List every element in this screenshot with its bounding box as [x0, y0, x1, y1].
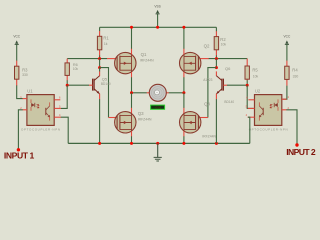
power symbol VCC left — [13, 34, 20, 60]
wire Q6 base to R5 junction — [227, 84, 247, 86]
U2 pin 1 — [282, 98, 287, 100]
svg-text:U1: U1 — [27, 88, 33, 93]
phototransistor inside U1 — [45, 108, 47, 115]
svg-text:INPUT 2: INPUT 2 — [286, 147, 316, 157]
svg-text:IRFZ44N: IRFZ44N — [138, 118, 152, 122]
svg-text:A1023: A1023 — [203, 78, 212, 82]
phototransistor inside U2 — [262, 108, 264, 115]
resistor R3 — [15, 61, 29, 86]
pin stub Q1 drain — [131, 49, 133, 55]
svg-text:INPUT 1: INPUT 1 — [4, 151, 35, 161]
wire Q5 base to R6 junction — [67, 84, 89, 86]
node dot rail Q1 — [130, 26, 133, 29]
wire R1 to gate node — [99, 55, 101, 58]
transistor Q4 — [180, 101, 217, 138]
wire to Q4 gate feed — [208, 68, 217, 118]
svg-text:IRFZ44N: IRFZ44N — [140, 58, 154, 62]
wire R2 to right gate node — [215, 55, 217, 58]
wire motor node to Q3 drain — [131, 93, 133, 108]
U2 pin 4 — [248, 116, 255, 118]
svg-text:R4: R4 — [292, 68, 298, 73]
node dot rail VSS — [156, 26, 159, 29]
wire Q6 emitter to ground rail — [215, 99, 217, 143]
wire gate node down right — [215, 59, 217, 68]
svg-text:Q3: Q3 — [138, 111, 144, 116]
wire R3 to U1 pin1 — [17, 85, 23, 98]
transistor Q1 — [100, 52, 155, 74]
wire U2 pin2 to input2 — [286, 110, 297, 144]
svg-text:BD140: BD140 — [224, 100, 234, 104]
wire U1 pin2 to input1 — [18, 110, 22, 149]
transistor Q5 — [89, 71, 111, 99]
wire gate node line left — [67, 58, 107, 60]
svg-text:OPTOCOUPLER-NPN: OPTOCOUPLER-NPN — [249, 128, 288, 132]
svg-text:VSS: VSS — [154, 4, 160, 8]
node dot R5 base junction — [246, 84, 249, 87]
pin stub Q2 source — [183, 72, 185, 78]
U2 pin 5 — [248, 107, 255, 109]
ground rail — [68, 142, 250, 144]
wire Q3 source to ground rail — [131, 136, 133, 143]
svg-text:R5: R5 — [252, 68, 258, 73]
U1 pin 4 — [54, 116, 61, 118]
node dot Q6 collector junction — [215, 66, 218, 69]
node dot motor right — [182, 91, 185, 94]
pin stub Q2 gate — [200, 58, 209, 60]
svg-text:BD140: BD140 — [101, 82, 111, 86]
U1 pin 2 — [23, 109, 27, 111]
svg-text:Q6: Q6 — [225, 66, 231, 71]
wire Q5 emitter to ground rail — [99, 99, 101, 143]
svg-text:Q5: Q5 — [102, 76, 108, 81]
wire rail to R2 — [215, 27, 217, 31]
svg-text:10k: 10k — [253, 75, 259, 79]
U1 pin 5 — [54, 107, 61, 109]
pin stub Q1 source — [131, 72, 133, 78]
U2 pin 2 — [282, 109, 287, 111]
resistor R2 — [214, 31, 226, 56]
node dot rail Q4 — [182, 142, 185, 145]
U2 pin 6 — [248, 99, 254, 101]
pin stub Q4 drain — [183, 108, 185, 114]
ground symbol — [154, 143, 162, 161]
wire R5 to junction — [246, 80, 248, 85]
wire U1 pin4 to ground rail — [61, 117, 68, 143]
transistor Q2 — [180, 43, 211, 73]
svg-text:330: 330 — [22, 73, 28, 77]
svg-text:U2: U2 — [255, 88, 261, 93]
led inside U2 — [274, 103, 278, 107]
wire motor node to Q4 drain — [183, 93, 185, 108]
wire rail to Q2 drain — [183, 27, 185, 48]
wire gate node line right — [209, 58, 248, 60]
pin stub Q2 drain — [183, 49, 185, 55]
svg-text:Q1: Q1 — [141, 52, 147, 57]
svg-text:Q2: Q2 — [204, 43, 210, 48]
pin stub Q1 gate — [107, 58, 116, 60]
svg-text:1k: 1k — [104, 42, 108, 46]
pin stub Q4 gate — [200, 117, 208, 119]
svg-text:R2: R2 — [220, 37, 226, 42]
wire Q4 source to ground rail — [183, 136, 185, 143]
svg-text:Q4: Q4 — [204, 101, 210, 106]
terminal INPUT 2 — [295, 143, 298, 146]
U1 pin 1 — [23, 98, 27, 100]
resistor R6 — [65, 59, 78, 81]
svg-text:10k: 10k — [221, 42, 227, 46]
wire R6 to junction — [66, 80, 68, 85]
wire junction down to U2 pin5 — [247, 85, 253, 108]
pin stub Q3 source — [131, 131, 133, 136]
optocoupler U2 — [255, 88, 282, 125]
U1 pin 6 — [54, 99, 60, 101]
wire top rail VSS — [100, 26, 217, 28]
led inside U1 — [31, 103, 35, 107]
transistor Q6 — [203, 66, 234, 104]
svg-text:R3: R3 — [22, 68, 28, 73]
pin stub Q3 drain — [131, 108, 133, 114]
svg-text:VCC: VCC — [13, 34, 20, 38]
power symbol VCC right — [284, 34, 291, 60]
terminal INPUT 1 — [17, 148, 20, 151]
resistor R1 — [97, 31, 109, 56]
node dot rail Q2 — [182, 26, 185, 29]
optocoupler U1 — [27, 88, 54, 125]
svg-text:VCC: VCC — [284, 34, 291, 38]
resistor R4 — [285, 61, 299, 86]
wire R4 to U2 pin1 — [283, 86, 287, 100]
node dot rail Q5 — [98, 142, 101, 145]
svg-text:10k: 10k — [73, 67, 79, 71]
node dot R2/gate — [215, 57, 218, 60]
svg-text:330: 330 — [293, 75, 299, 79]
pin stub Q4 source — [183, 131, 185, 136]
svg-text:+0.00: +0.00 — [155, 106, 162, 110]
svg-text:IRFZ44N: IRFZ44N — [202, 135, 216, 139]
node dot rail gnd — [156, 142, 159, 145]
wire Q1 source to motor node — [131, 77, 133, 93]
wire rail to R1 — [99, 27, 101, 31]
svg-text:OPTOCOUPLER-NPN: OPTOCOUPLER-NPN — [21, 128, 60, 132]
wire gate node down — [99, 59, 101, 68]
node dot R6 base junction — [66, 84, 69, 87]
wire junction down to U1 pin5 — [61, 85, 67, 108]
motor M1 — [132, 84, 184, 101]
wire Q2 source to motor node — [183, 77, 185, 93]
svg-text:R1: R1 — [103, 36, 109, 41]
pin stub Q3 gate — [109, 117, 116, 119]
resistor R5 — [245, 59, 258, 81]
node dot R1/gate — [98, 57, 101, 60]
node dot rail Q6 — [215, 142, 218, 145]
node dot motor left — [130, 91, 133, 94]
wire rail to Q1 drain — [131, 27, 133, 48]
transistor Q3 — [115, 111, 152, 133]
wire to Q3 gate feed — [100, 68, 109, 118]
power symbol VSS — [154, 4, 160, 27]
node dot Q5 collector junction — [98, 66, 101, 69]
wire U2 pin4 to ground rail — [248, 117, 250, 143]
motor rpm display — [151, 105, 165, 110]
node dot rail Q3 — [130, 142, 133, 145]
